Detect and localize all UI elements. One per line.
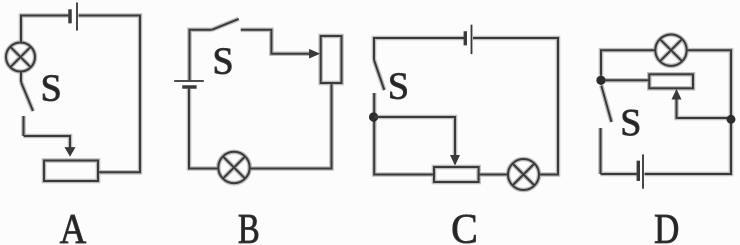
- wire: [645, 50, 732, 174]
- svg-text:B: B: [238, 206, 260, 245]
- svg-text:S: S: [213, 40, 234, 82]
- wire: [677, 99, 732, 118]
- rheostat R4: [649, 74, 693, 88]
- wire: [601, 173, 637, 175]
- wiper arrow: [672, 89, 682, 100]
- wire: [250, 83, 332, 169]
- wire: [190, 30, 212, 81]
- wire: [473, 38, 558, 175]
- battery BT4: [638, 154, 643, 188]
- switch S2: [212, 19, 239, 30]
- switch S1: [21, 72, 33, 137]
- wire: [605, 79, 649, 81]
- battery BT1: [70, 3, 77, 31]
- node: [596, 76, 605, 85]
- svg-text:S: S: [41, 68, 62, 110]
- lamp L2: [218, 152, 249, 183]
- lamp L4: [655, 35, 686, 66]
- wire: [21, 16, 69, 43]
- svg-text:A: A: [60, 206, 87, 245]
- svg-text:C: C: [451, 205, 478, 245]
- wire: [79, 16, 141, 173]
- svg-text:S: S: [620, 102, 641, 144]
- wire: [601, 50, 655, 75]
- rheostat R2: [321, 36, 342, 83]
- battery BT3: [465, 25, 471, 54]
- wire: [241, 30, 310, 54]
- switch S4: [601, 86, 612, 175]
- wire: [189, 89, 219, 169]
- rheostat R3: [434, 167, 479, 182]
- lamp L3: [508, 159, 539, 190]
- wire: [374, 38, 464, 60]
- wiper arrow: [450, 155, 460, 166]
- svg-text:D: D: [654, 207, 679, 245]
- wiper arrow: [309, 49, 320, 58]
- node: [369, 112, 378, 121]
- battery BT2: [174, 81, 204, 87]
- node: [727, 115, 736, 124]
- wiper arrow: [65, 147, 76, 156]
- switch S3: [374, 60, 384, 90]
- lamp L1: [6, 43, 35, 72]
- wire: [24, 136, 71, 149]
- wire: [374, 117, 455, 158]
- rheostat R1: [44, 161, 98, 182]
- wire: [479, 174, 508, 176]
- svg-text:S: S: [388, 65, 409, 107]
- wire: [374, 93, 434, 175]
